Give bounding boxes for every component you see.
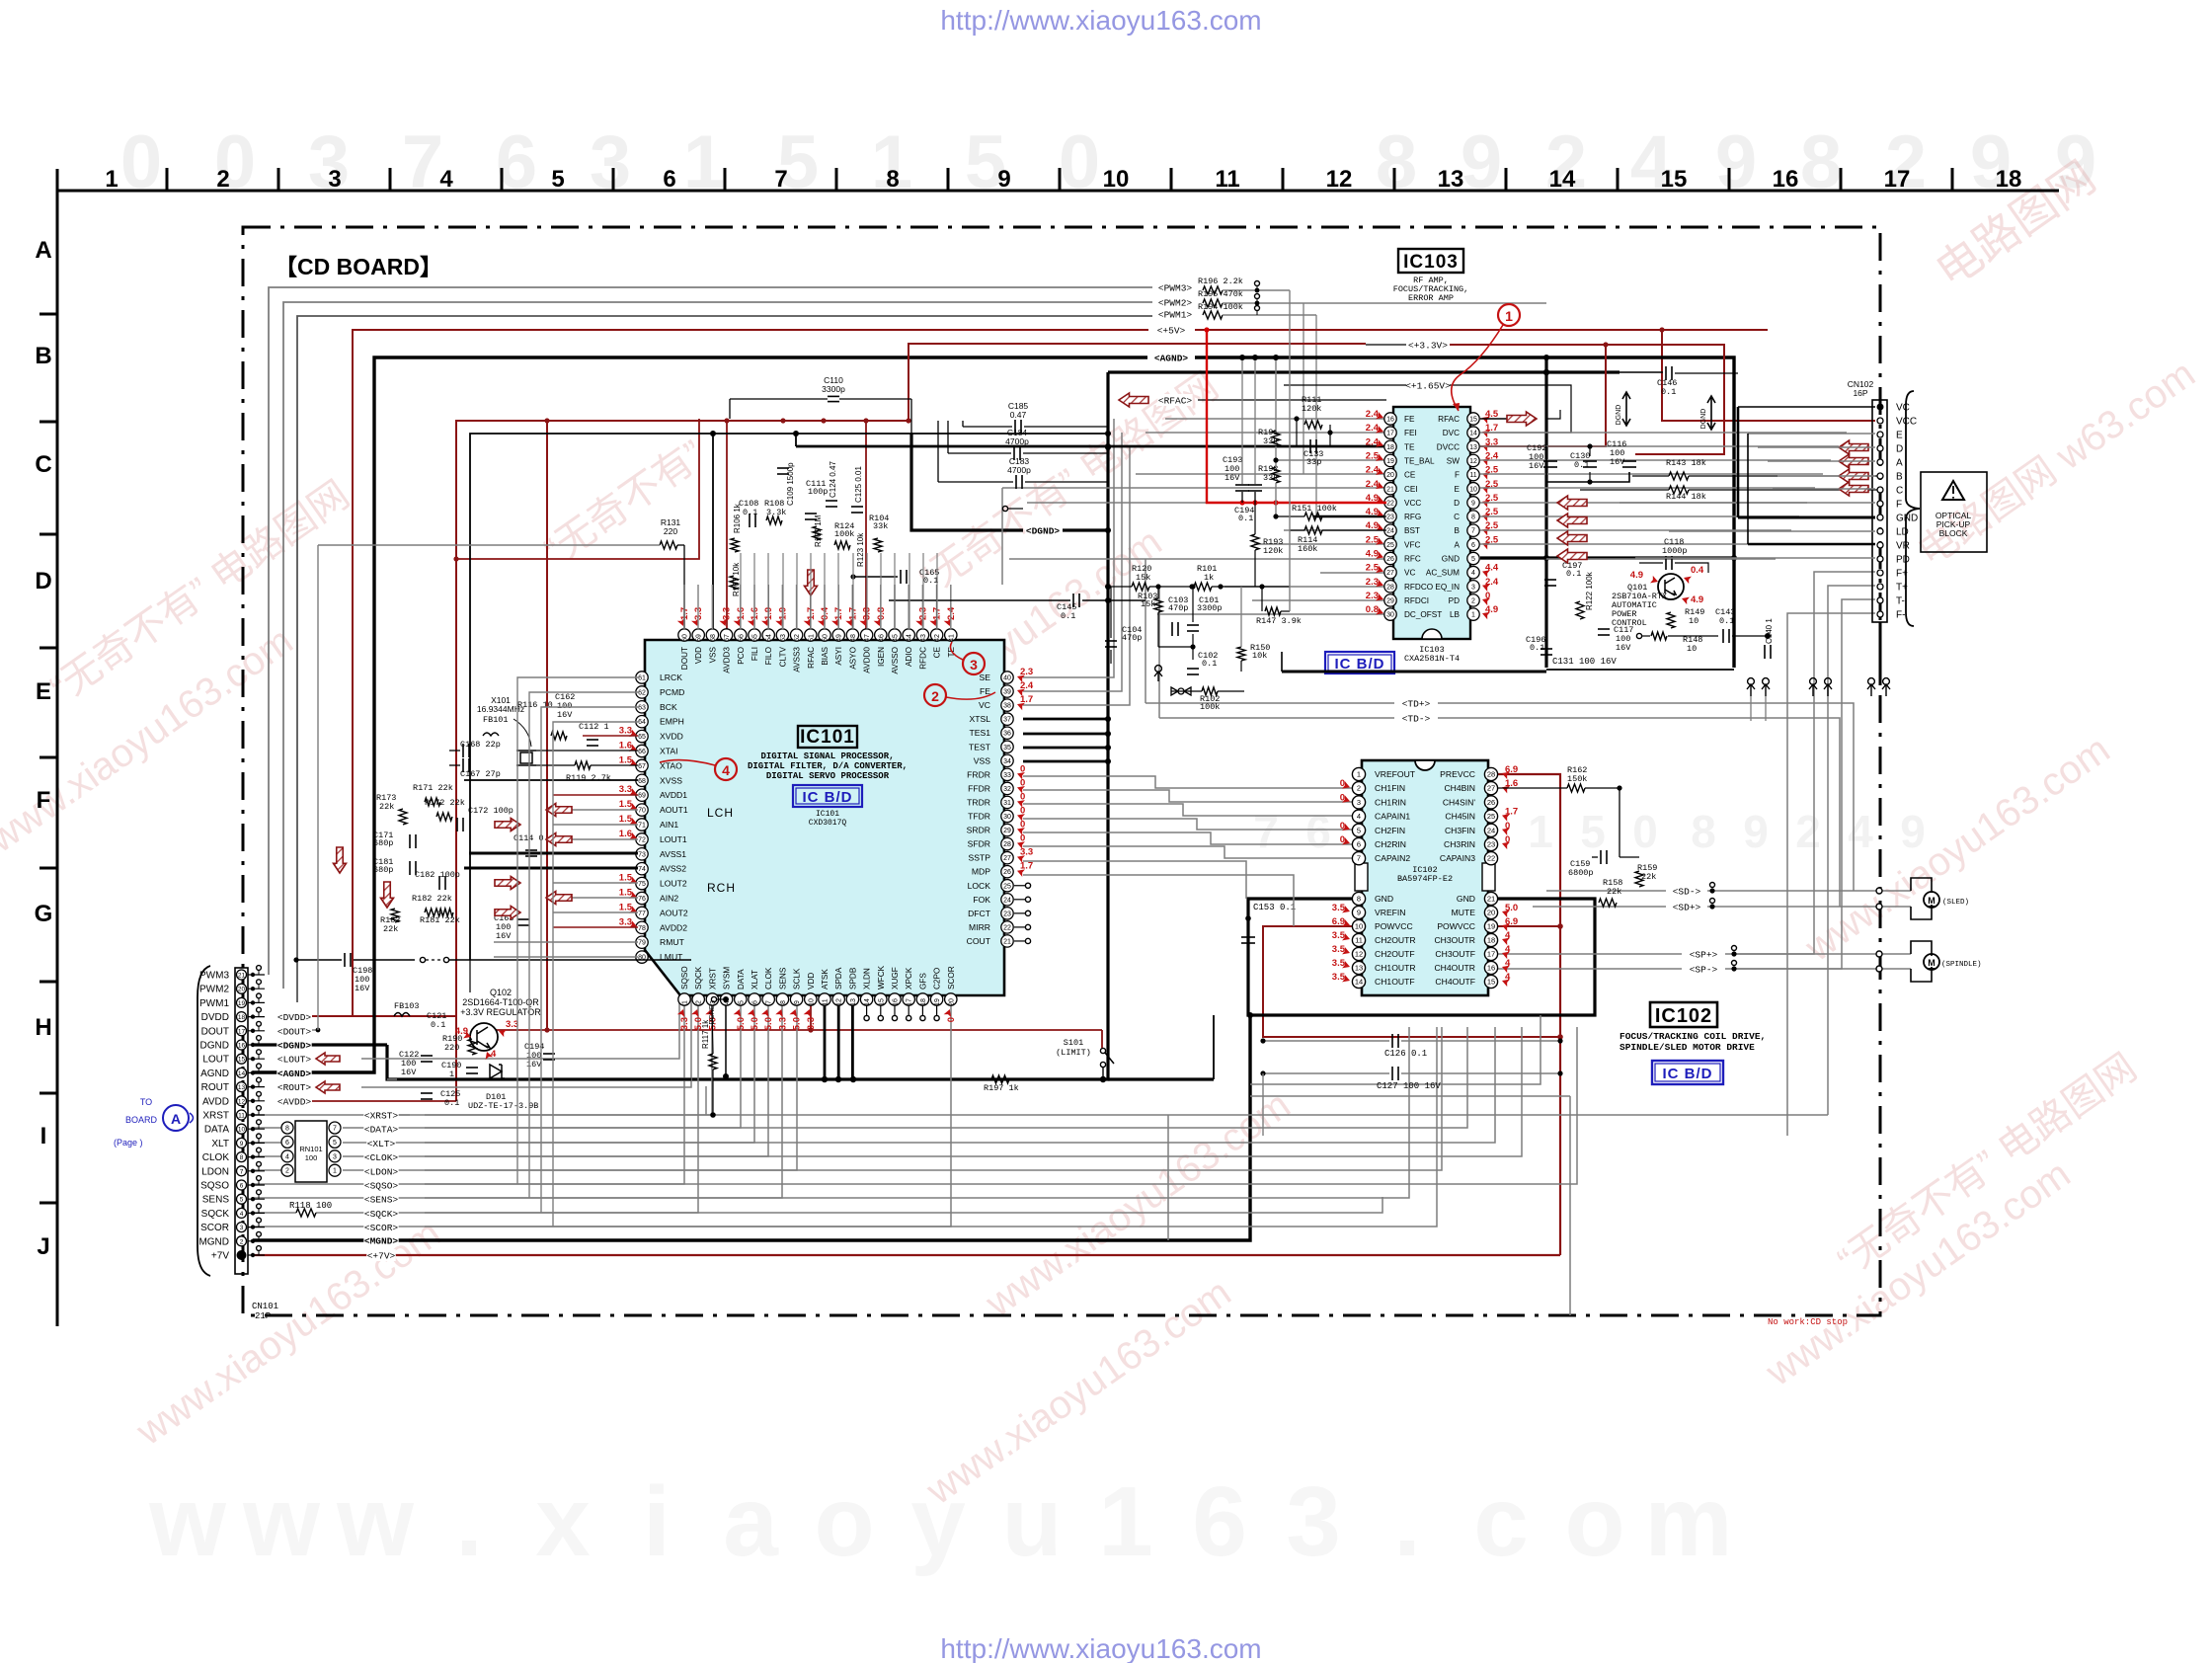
svg-text:BIAS: BIAS (821, 646, 829, 665)
svg-text:13: 13 (850, 998, 857, 1006)
svg-text:<+1.65V>: <+1.65V> (1405, 381, 1451, 392)
svg-text:LOUT2: LOUT2 (660, 879, 687, 889)
svg-text:60: 60 (682, 634, 689, 642)
svg-text:<SD+>: <SD+> (1673, 903, 1701, 913)
svg-text:C126 0.1: C126 0.1 (1384, 1049, 1427, 1059)
svg-text:3.3: 3.3 (722, 607, 733, 620)
svg-text:22k: 22k (383, 924, 398, 934)
svg-text:23: 23 (1487, 840, 1495, 849)
svg-text:<LOUT>: <LOUT> (277, 1055, 312, 1066)
wire +3.3V rail (red) (456, 421, 908, 1101)
svg-text:<DGND>: <DGND> (1026, 526, 1061, 537)
svg-text:CH45IN: CH45IN (1445, 812, 1475, 822)
svg-text:64: 64 (638, 719, 646, 726)
svg-text:1000p: 1000p (1662, 546, 1688, 556)
svg-text:R117 1k: R117 1k (701, 1019, 710, 1049)
svg-text:7: 7 (333, 1126, 337, 1133)
svg-text:FILO: FILO (764, 647, 773, 665)
svg-text:FOCUS/TRACKING COIL DRIVE,: FOCUS/TRACKING COIL DRIVE, (1619, 1031, 1766, 1042)
svg-text:220: 220 (444, 1043, 459, 1053)
svg-text:LOUT1: LOUT1 (660, 834, 687, 844)
wire CLOK row (253, 1155, 287, 1157)
svg-text:1: 1 (682, 1000, 689, 1004)
svg-text:2: 2 (216, 166, 229, 193)
svg-text:3: 3 (333, 1153, 337, 1160)
svg-text:46: 46 (878, 634, 885, 642)
svg-text:J: J (37, 1233, 49, 1260)
svg-text:26: 26 (1487, 798, 1495, 807)
svg-text:16V: 16V (1224, 473, 1240, 483)
svg-text:17: 17 (1487, 950, 1495, 959)
svg-text:VREFOUT: VREFOUT (1375, 769, 1416, 779)
transistor Q101 (1658, 574, 1684, 599)
svg-text:ATSK: ATSK (821, 969, 829, 990)
svg-text:VC: VC (1404, 569, 1415, 578)
svg-text:2: 2 (931, 688, 939, 704)
svg-text:E: E (36, 678, 51, 705)
svg-text:SCOR: SCOR (947, 966, 956, 990)
svg-text:EMPH: EMPH (660, 717, 684, 727)
svg-text:16: 16 (238, 1043, 246, 1050)
svg-text:28: 28 (1487, 770, 1495, 779)
svg-text:PCO: PCO (737, 647, 746, 665)
svg-text:PREVCC: PREVCC (1440, 769, 1475, 779)
wire LCH analog rows (553, 809, 638, 811)
svg-text:<TD->: <TD-> (1402, 714, 1431, 725)
svg-text:LOUT: LOUT (202, 1055, 229, 1066)
svg-text:1: 1 (1471, 612, 1475, 619)
svg-text:75: 75 (638, 881, 646, 888)
svg-text:76: 76 (638, 896, 646, 903)
svg-text:CH3OUTR: CH3OUTR (1434, 935, 1475, 945)
svg-text:ASYI: ASYI (834, 647, 843, 666)
svg-text:RFG: RFG (1404, 513, 1421, 521)
svg-text:w: w (242, 1466, 320, 1577)
wire CN102 GND thick (1738, 516, 1875, 519)
op-amp IC103 body (1393, 407, 1470, 639)
svg-text:14: 14 (238, 1070, 246, 1077)
svg-text:21P: 21P (255, 1311, 271, 1321)
svg-text:10: 10 (808, 998, 815, 1006)
svg-text:26: 26 (1386, 556, 1394, 563)
svg-text:8: 8 (1357, 895, 1361, 904)
svg-text:3300p: 3300p (822, 384, 845, 394)
svg-text:RFDCI: RFDCI (1404, 596, 1429, 605)
svg-text:CE: CE (1404, 471, 1416, 480)
top ruler ticks (166, 168, 169, 191)
svg-text:24: 24 (1003, 897, 1011, 904)
svg-text:PD: PD (1896, 555, 1910, 566)
svg-text:100k: 100k (1200, 702, 1220, 712)
svg-text:10: 10 (1689, 616, 1698, 626)
svg-text:C153 0.1: C153 0.1 (1253, 903, 1296, 912)
svg-text:8: 8 (1471, 515, 1475, 521)
svg-text:LB: LB (1450, 610, 1461, 619)
svg-text:FFDR: FFDR (968, 783, 990, 793)
svg-text:AIN1: AIN1 (660, 820, 678, 830)
svg-text:29: 29 (1386, 597, 1394, 604)
arrow RFAC right hatch (1507, 412, 1537, 426)
svg-text:XPCK: XPCK (905, 967, 913, 990)
svg-text:CXA2581N-T4: CXA2581N-T4 (1404, 654, 1460, 664)
svg-text:53: 53 (780, 634, 787, 642)
svg-text:23: 23 (1003, 911, 1011, 917)
resistor R114 160k (1304, 526, 1322, 534)
svg-text:<AGND>: <AGND> (277, 1069, 312, 1079)
svg-text:0.1: 0.1 (1061, 611, 1075, 621)
svg-text:5.0: 5.0 (763, 1017, 774, 1030)
svg-text:RFAC: RFAC (1438, 415, 1460, 424)
svg-text:34: 34 (1003, 758, 1011, 765)
svg-text:DFCT: DFCT (968, 909, 991, 918)
svg-text:28: 28 (1386, 584, 1394, 591)
svg-text:RFAC: RFAC (807, 647, 816, 669)
svg-text:SENS: SENS (202, 1195, 230, 1206)
svg-text:IC B/D: IC B/D (1335, 656, 1385, 673)
svg-text:Q102: Q102 (490, 988, 512, 997)
svg-text:31: 31 (1003, 800, 1011, 807)
wire DGND row thick (253, 1043, 387, 1046)
svg-text:70: 70 (638, 808, 646, 815)
svg-text:38: 38 (1003, 703, 1011, 710)
op-amp IC101 body (645, 640, 1004, 995)
svg-text:5: 5 (333, 1140, 337, 1147)
svg-text:29: 29 (1003, 828, 1011, 834)
node TD+ label (1401, 697, 1430, 709)
svg-text:13: 13 (1438, 166, 1464, 193)
svg-text:18: 18 (238, 1014, 246, 1021)
svg-text:1: 1 (449, 1069, 454, 1079)
wire DGND vertical bus (thick) (387, 372, 1108, 1079)
svg-text:DVC: DVC (1443, 429, 1460, 437)
wire component drop columns (740, 553, 742, 629)
svg-text:VREFIN: VREFIN (1375, 908, 1406, 917)
svg-text:TO: TO (140, 1097, 152, 1107)
svg-text:4.9: 4.9 (1691, 594, 1703, 605)
svg-text:F: F (37, 787, 51, 814)
svg-text:SENS: SENS (778, 967, 787, 990)
svg-text:S101: S101 (1064, 1038, 1083, 1048)
svg-text:DVCC: DVCC (1437, 442, 1460, 451)
svg-text:ERROR AMP: ERROR AMP (1408, 293, 1454, 303)
svg-text:17: 17 (907, 998, 913, 1006)
IC103 left pins (1384, 413, 1396, 425)
svg-text:u: u (1001, 1466, 1062, 1577)
node PWM2 label (1157, 296, 1192, 308)
svg-text:0: 0 (1632, 806, 1658, 857)
svg-text:13: 13 (238, 1084, 246, 1091)
svg-text:0.1: 0.1 (1238, 514, 1253, 523)
svg-text:FEI: FEI (1404, 429, 1417, 437)
wire IC103 GND pin5 thick (1480, 557, 1546, 560)
svg-text:AVDD3: AVDD3 (723, 647, 732, 673)
wire PWM drop verticals (1303, 303, 1304, 474)
svg-text:52: 52 (794, 634, 801, 642)
wire regulator 3.3V riser (red) (546, 421, 548, 1030)
wire vertical x1183 (1167, 1115, 1169, 1240)
svg-text:10: 10 (238, 1127, 246, 1134)
svg-text:RFDCO: RFDCO (1404, 583, 1433, 592)
svg-text:<SENS>: <SENS> (364, 1195, 399, 1206)
svg-text:30: 30 (1386, 612, 1394, 619)
svg-text:CH1OUTR: CH1OUTR (1375, 963, 1416, 973)
svg-text:m: m (1645, 1466, 1733, 1577)
svg-text:10k: 10k (1252, 651, 1267, 661)
junction dots SD/SP test points (1709, 888, 1714, 893)
svg-text:<AGND>: <AGND> (1154, 354, 1189, 364)
wire +3.3V label to IC103 DVCC (red) (1407, 339, 1448, 351)
wire SSTP MDP (1023, 861, 1246, 899)
svg-text:21: 21 (1003, 938, 1011, 945)
svg-text:16V: 16V (1529, 461, 1544, 471)
svg-text:5.0: 5.0 (736, 1017, 747, 1030)
svg-text:C124 0.47: C124 0.47 (829, 461, 837, 498)
wire LDON row (253, 1169, 287, 1171)
wire regulator gnd rail (397, 1078, 553, 1081)
svg-text:8: 8 (1691, 806, 1716, 857)
svg-text:CLOK: CLOK (202, 1152, 230, 1163)
svg-text:FB101: FB101 (483, 715, 509, 725)
svg-text:VSS: VSS (974, 755, 990, 765)
svg-text:XUGF: XUGF (891, 967, 900, 990)
wire CN102 F+ line (1736, 572, 1875, 954)
svg-text:160k: 160k (1298, 544, 1317, 554)
svg-text:PWM1: PWM1 (199, 998, 229, 1009)
svg-text:32: 32 (1003, 786, 1011, 793)
svg-text:6: 6 (663, 166, 675, 193)
svg-text:6: 6 (1357, 840, 1361, 849)
svg-text:<SP+>: <SP+> (1690, 950, 1718, 961)
svg-text:<SP->: <SP-> (1690, 965, 1718, 976)
svg-text:COUT: COUT (967, 936, 991, 946)
IC102 IC B/D box (1652, 1061, 1723, 1084)
svg-text:150k: 150k (1567, 774, 1587, 784)
svg-text:18: 18 (1996, 166, 2022, 193)
svg-text:12: 12 (1326, 166, 1353, 193)
svg-text:9: 9 (240, 1141, 244, 1148)
svg-text:7: 7 (1471, 528, 1475, 535)
svg-text:16V: 16V (1610, 457, 1625, 467)
svg-text:2: 2 (1795, 806, 1821, 857)
svg-text:DGND: DGND (1616, 405, 1622, 426)
svg-text:9: 9 (997, 166, 1010, 193)
svg-text:1: 1 (333, 1168, 337, 1175)
svg-text:37: 37 (1003, 717, 1011, 724)
svg-text:22k: 22k (1607, 887, 1621, 897)
svg-text:D: D (1896, 444, 1903, 455)
IC102 right pins (1484, 767, 1497, 780)
svg-text:72: 72 (638, 836, 646, 843)
svg-text:TE: TE (1404, 442, 1415, 451)
svg-text:16: 16 (1487, 964, 1495, 973)
svg-text:IC101: IC101 (800, 727, 855, 748)
svg-text:2: 2 (696, 1000, 703, 1004)
svg-text:C: C (35, 451, 51, 478)
svg-text:4700p: 4700p (1007, 465, 1031, 475)
svg-text:19: 19 (1386, 458, 1394, 465)
svg-text:25: 25 (1386, 542, 1394, 549)
svg-text:2: 2 (1471, 597, 1475, 604)
wire Q102 output red (496, 1029, 1102, 1031)
wire AVDD row red (312, 1100, 456, 1102)
svg-text:22k: 22k (379, 802, 394, 812)
connector CN102 pins (1877, 404, 1884, 411)
svg-text:17: 17 (1386, 431, 1394, 437)
svg-text:M: M (1928, 896, 1935, 906)
callout circled 2 (924, 684, 946, 706)
svg-text:CH3FIN: CH3FIN (1445, 826, 1475, 835)
wire SCOR row (253, 1005, 951, 1227)
svg-text:SPINDLE/SLED MOTOR DRIVE: SPINDLE/SLED MOTOR DRIVE (1619, 1042, 1755, 1053)
svg-text:CH4SIN': CH4SIN' (1443, 797, 1476, 807)
daisy symbol left (1155, 666, 1162, 673)
svg-text:LOCK: LOCK (968, 881, 991, 891)
svg-text:26: 26 (1003, 869, 1011, 876)
IC102 left pins (1352, 767, 1365, 780)
IC101 bottom pins (678, 993, 690, 1005)
daisy symbols right pair2 (1868, 678, 1875, 685)
svg-text:73: 73 (638, 851, 646, 858)
resistor R150 10k (1237, 647, 1245, 661)
svg-text:16: 16 (893, 998, 900, 1006)
wire red branch x708 (456, 419, 699, 559)
svg-text:DOUT: DOUT (201, 1026, 229, 1037)
wire SD- to sled motor (1672, 885, 1700, 897)
svg-text:SCLK: SCLK (793, 968, 802, 990)
wire CN102 F- line (1787, 613, 1875, 1136)
svg-text:19: 19 (238, 1000, 246, 1007)
svg-text:CH2OUTF: CH2OUTF (1375, 949, 1415, 959)
svg-text:VC: VC (1896, 403, 1910, 414)
wire AVSS thick rows (469, 852, 638, 855)
svg-text:44: 44 (907, 634, 913, 642)
svg-text:CH4OUTR: CH4OUTR (1434, 963, 1475, 973)
IC101 right pins (1001, 672, 1013, 683)
svg-text:100p: 100p (808, 487, 828, 497)
svg-text:IC B/D: IC B/D (803, 789, 853, 806)
frame crossing circles (1876, 888, 1882, 894)
svg-text:C131 100 16V: C131 100 16V (1552, 657, 1617, 667)
resistor R102 100k (1202, 687, 1218, 695)
svg-text:6: 6 (1471, 542, 1475, 549)
wire SD+ to sled motor (1672, 901, 1700, 912)
svg-text:CH1OUTF: CH1OUTF (1375, 977, 1415, 987)
wire drop to IC101 pin58 (712, 434, 714, 629)
arrows hatch down red (334, 847, 347, 873)
svg-text:D: D (1454, 499, 1460, 508)
svg-text:3.3: 3.3 (679, 1017, 690, 1030)
svg-text:w: w (148, 1466, 226, 1577)
svg-text:(SPINDLE): (SPINDLE) (1941, 961, 1982, 969)
wire +7V riser to IC102 (red) (1498, 774, 1560, 1255)
svg-text:RFDC: RFDC (918, 647, 927, 670)
svg-text:B: B (35, 343, 51, 369)
svg-text:CEI: CEI (1404, 485, 1418, 494)
svg-text:79: 79 (638, 940, 646, 947)
svg-text:220: 220 (664, 526, 677, 536)
svg-text:w: w (336, 1466, 414, 1577)
wire PWM3 bus (269, 287, 1152, 975)
svg-text:WFCK: WFCK (877, 965, 886, 990)
svg-text:R172 22k: R172 22k (425, 798, 465, 808)
wire FRDR..SFDR to IC102 inputs (1023, 776, 1357, 788)
svg-text:http://www.xiaoyu163.com: http://www.xiaoyu163.com (940, 5, 1261, 36)
svg-text:+7V: +7V (211, 1251, 229, 1262)
svg-text:42: 42 (934, 634, 941, 642)
svg-text:XLT: XLT (211, 1139, 229, 1149)
svg-text:9: 9 (1471, 500, 1475, 507)
node PWM1 label (1157, 308, 1192, 320)
svg-text:47: 47 (864, 634, 871, 642)
svg-text:XTAI: XTAI (660, 747, 677, 756)
svg-text:77: 77 (638, 911, 646, 917)
svg-text:o: o (1564, 1466, 1624, 1577)
svg-text:XTSL: XTSL (970, 714, 991, 724)
svg-text:C140 1: C140 1 (1765, 618, 1774, 644)
svg-text:<PWM2>: <PWM2> (1158, 298, 1193, 309)
svg-text:10: 10 (1103, 166, 1130, 193)
svg-text:4700p: 4700p (1005, 436, 1029, 446)
op-amp IC102 body (1362, 760, 1488, 995)
svg-text:5: 5 (1580, 806, 1606, 857)
svg-text:SQSO: SQSO (680, 966, 689, 990)
svg-text:DATA: DATA (204, 1125, 230, 1136)
wire SE/FE/VC to error amp (1023, 419, 1114, 677)
svg-text:POWVCC: POWVCC (1437, 921, 1475, 931)
wire DGND thick right段 (1480, 556, 1734, 559)
svg-text:FE: FE (1404, 415, 1415, 424)
wire long verticals mid (1145, 559, 1146, 585)
svg-text:27: 27 (1386, 570, 1394, 577)
svg-text:120k: 120k (1302, 404, 1321, 414)
svg-text:27: 27 (1003, 855, 1011, 862)
wire MGND join (1247, 1012, 1253, 1018)
svg-text:XLDN: XLDN (863, 968, 872, 990)
svg-text:<LDON>: <LDON> (364, 1166, 399, 1177)
svg-text:0.1: 0.1 (923, 576, 938, 586)
top ruler line (57, 190, 2059, 193)
svg-text:VCC: VCC (1404, 499, 1421, 508)
svg-text:M: M (1928, 958, 1935, 968)
wire PWM1 bus (297, 316, 1152, 1002)
svg-text:7: 7 (766, 1000, 773, 1004)
svg-text:PCMD: PCMD (660, 687, 684, 697)
svg-text:71: 71 (638, 823, 646, 830)
svg-text:1.5: 1.5 (619, 754, 633, 765)
svg-text:8: 8 (240, 1154, 244, 1161)
wire thick y680 (1282, 671, 1546, 673)
svg-text:XLAT: XLAT (750, 970, 759, 990)
svg-text:PWM3: PWM3 (199, 971, 229, 982)
svg-text:TES1: TES1 (970, 728, 991, 738)
svg-text:20: 20 (1487, 909, 1495, 917)
IC101 top pins (678, 629, 690, 641)
svg-text:R147 3.9k: R147 3.9k (1256, 616, 1302, 626)
wire daisy drops (1750, 696, 1752, 721)
svg-text:16V: 16V (1616, 643, 1631, 653)
svg-text:TEST: TEST (969, 742, 991, 752)
svg-text:1.5: 1.5 (619, 799, 633, 810)
svg-text:C167 27p: C167 27p (460, 769, 501, 779)
svg-text:RFC: RFC (1404, 555, 1421, 564)
svg-text:CH1FIN: CH1FIN (1375, 783, 1405, 793)
svg-text:SYSM: SYSM (723, 967, 732, 990)
svg-text:16V: 16V (496, 931, 512, 941)
svg-text:VSS: VSS (708, 646, 717, 663)
svg-text:1.5: 1.5 (619, 873, 633, 884)
svg-text:20: 20 (1386, 472, 1394, 479)
svg-text:SSTP: SSTP (969, 853, 991, 863)
